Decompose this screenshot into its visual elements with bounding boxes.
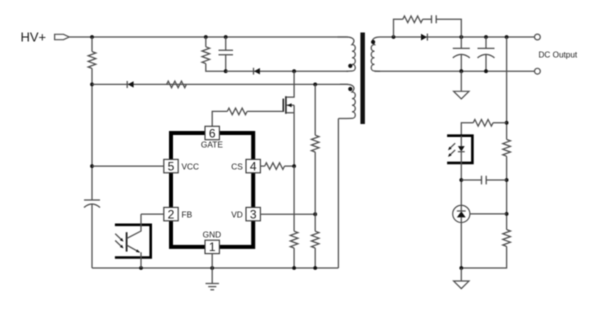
pin 5 box (164, 159, 178, 172)
transistor Q1 channel bar (285, 96, 287, 114)
svg-text:4: 4 (250, 159, 257, 173)
wire VCC pin 5 to left column (92, 165, 164, 167)
junction rail at R8 (313, 266, 317, 270)
optocoupler U2A emitter arrow (136, 249, 140, 252)
junction clamp node (225.7,71.2) (224, 69, 228, 73)
wire feedback column top (506, 37, 508, 139)
svg-text:CS: CS (231, 161, 243, 171)
resistor R10 (473, 120, 493, 127)
optocoupler U2B LED triangle (458, 146, 465, 151)
optocoupler U2B light arrow 2 (449, 150, 455, 156)
junction TL431 ref node (506.6,213.9) (505, 212, 509, 216)
wire gate to pin 6 (212, 111, 227, 126)
wire bias line y=84.4 (92, 83, 348, 85)
junction rail at opto emitter (139, 266, 143, 270)
wire left column mid (91, 68, 93, 200)
transistor Q1 source lead (287, 105, 295, 166)
wire gate line (247, 110, 283, 112)
junction rail at GND pin (210, 266, 214, 270)
pin 1 box (205, 240, 219, 253)
wire aux winding return to ground rail (337, 119, 339, 269)
wire snubber C1 top lead (225, 37, 227, 50)
resistor R7 (290, 231, 298, 248)
junction C6 right node (506.6,180) (505, 178, 509, 182)
node HV+ input tag (55, 34, 70, 39)
wire source column lower (293, 248, 295, 268)
wire right ground stub (460, 268, 462, 281)
wire CS pin 4 lead (260, 165, 264, 167)
wire feedback column bottom (461, 246, 506, 268)
optocoupler U2A collector (127, 214, 141, 238)
svg-text:VCC: VCC (182, 161, 200, 171)
wire primary ground rail (92, 267, 338, 269)
wire secondary ground stub (460, 71, 462, 91)
wire HV+ rail (69, 36, 348, 38)
resistor R3 (167, 81, 187, 88)
wire clamp line to drain node (226, 70, 348, 72)
junction rail at R7 (292, 266, 296, 270)
wire secondary top rail (394, 36, 535, 38)
resistor R2 (202, 47, 210, 64)
junction bottom rail at C3 (459, 69, 463, 73)
wire C3 bottom lead (460, 55, 462, 71)
svg-text:VD: VD (231, 209, 243, 219)
optocoupler U2A light arrow 1 (115, 234, 122, 241)
svg-text:DC Output: DC Output (539, 50, 578, 59)
transistor Q1 drain lead (287, 71, 295, 97)
wire C6 leads (461, 179, 506, 181)
optocoupler U2A phototransistor box (115, 225, 151, 258)
op-amp U1 controller IC body (171, 133, 253, 247)
transistor Q1 body tap (287, 104, 295, 106)
svg-text:5: 5 (168, 159, 175, 173)
junction on HV+ rail at R1 (90, 35, 94, 39)
wire snubber C1 bottom lead (225, 55, 227, 71)
capacitor C4 top plate (478, 47, 495, 49)
resistor R12 (503, 230, 511, 247)
transistor Q1 body arrow (287, 103, 292, 107)
optocoupler U2B LED box (447, 136, 472, 163)
resistor R5 (265, 163, 285, 170)
svg-text:6: 6 (209, 126, 216, 140)
transformer T1 primary winding (338, 37, 356, 71)
capacitor C2 plates (432, 15, 437, 23)
wire snubber R2 bottom lead (206, 64, 226, 72)
diode D1 bar (126, 81, 128, 88)
capacitor C3 top plate (453, 47, 470, 49)
wire C3 top lead (460, 37, 462, 48)
wire left column lower (91, 204, 93, 268)
wire FB pin 2 to opto collector (141, 213, 164, 215)
capacitor C5 curved plate (84, 204, 100, 208)
capacitor C5 top plate (84, 199, 100, 201)
diode D3 (421, 34, 427, 41)
svg-text:GATE: GATE (201, 139, 223, 149)
resistor R11 (503, 139, 511, 156)
wire C4 top lead (485, 37, 487, 48)
wire TL431 ref lead (470, 213, 507, 215)
op-amp U3 TL431 circle (453, 205, 470, 222)
optocoupler U2A emitter (127, 245, 141, 268)
wire opto LED to TL431 (460, 163, 462, 205)
diode D3 bar (426, 34, 428, 41)
junction C6 left node (461.3,180) (459, 178, 463, 182)
wire secondary snubber loop (394, 19, 462, 37)
ground secondary triangle (454, 91, 469, 99)
junction LED resistor node (506.6,122.8) (505, 121, 509, 125)
transformer T1 primary phase dot (348, 64, 352, 68)
junction on HV+ rail at snubber C1 (224, 35, 228, 39)
TL431 cathode bar (457, 210, 466, 212)
capacitor C1 plates (219, 50, 234, 55)
resistor R4 (227, 108, 247, 115)
wire divider column lower (314, 248, 316, 268)
diode D2 (254, 68, 260, 74)
wire divider column mid (314, 152, 316, 231)
ground primary earth bars (206, 284, 220, 290)
junction secondary rail at feedback tap (505, 35, 509, 39)
svg-text:2: 2 (168, 207, 175, 221)
pin 2 box (164, 207, 178, 220)
junction TL431 anode rail node (459, 266, 463, 270)
optocoupler U2B light arrow 1 (449, 143, 455, 149)
junction CS node (294.1,166.1) (292, 164, 296, 168)
transformer T1 secondary phase dot (371, 40, 375, 44)
wire GND pin 1 to rail (211, 254, 213, 284)
resistor R9 (403, 16, 423, 23)
transformer T1 secondary winding (371, 37, 393, 71)
resistor R1 (88, 52, 96, 69)
junction VCC node (92,166.1) (90, 164, 94, 168)
ground right triangle (454, 281, 469, 289)
TL431 triangle (457, 211, 466, 217)
junction VD node (315.2,214.2) (313, 212, 317, 216)
wire divider column upper (314, 84, 316, 135)
wire C4 bottom lead (485, 55, 487, 71)
capacitor C4 curved plate (478, 54, 495, 58)
optocoupler U2A base bar (126, 232, 128, 251)
junction node A (92,84.4) (90, 83, 94, 87)
transformer T1 auxiliary phase dot (348, 87, 352, 91)
junction bias/divider node (315.2,84.4) (313, 83, 317, 87)
wire VD pin 3 to divider (260, 213, 315, 215)
wire LED top line (461, 123, 506, 136)
pin 6 box (205, 126, 219, 139)
transformer T1 auxiliary winding (338, 84, 355, 118)
wire TL431 vertical through (460, 205, 462, 268)
diode D2 bar (253, 68, 255, 75)
junction drain node (294.1,71.2) (292, 69, 296, 73)
junction secondary rail at snubber left (392, 35, 396, 39)
node DC Output - terminal (535, 68, 541, 74)
optocoupler U2A light arrow 2 (115, 241, 122, 248)
wire source column mid (293, 166, 295, 231)
junction on HV+ rail at snubber R2 (204, 35, 208, 39)
svg-text:3: 3 (250, 207, 257, 221)
resistor R8 (311, 231, 319, 248)
svg-text:1: 1 (209, 240, 216, 254)
node DC Output + terminal (535, 34, 541, 40)
junction bottom rail at C4 (484, 69, 488, 73)
wire feedback column mid (506, 156, 508, 229)
diode D1 (128, 81, 134, 87)
svg-text:FB: FB (182, 209, 193, 219)
junction secondary rail at snubber right / C3 (459, 35, 463, 39)
pin 4 box (246, 159, 260, 172)
wire snubber R2 top lead (205, 37, 207, 47)
transistor Q1 gate bar (282, 99, 284, 112)
capacitor C3 curved plate (453, 54, 470, 58)
transformer T1 core (360, 33, 365, 125)
wire CS resistor to source line (285, 165, 295, 167)
pin 3 box (246, 207, 260, 220)
optocoupler U2B LED wire (460, 136, 462, 163)
optocoupler U2B LED bar (458, 151, 465, 153)
resistor R6 (311, 135, 319, 152)
svg-text:GND: GND (203, 230, 221, 240)
wire secondary bottom rail (375, 70, 535, 72)
svg-text:HV+: HV+ (21, 30, 47, 45)
junction secondary rail at C4 (484, 35, 488, 39)
capacitor C6 plates (482, 176, 487, 185)
wire left column upper (91, 37, 93, 52)
